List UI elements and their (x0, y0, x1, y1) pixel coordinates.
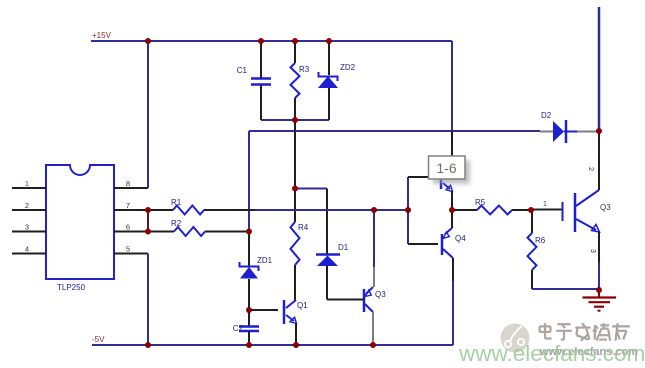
svg-text:TLP250: TLP250 (57, 283, 86, 292)
svg-text:C1: C1 (237, 66, 248, 75)
svg-text:4: 4 (25, 245, 29, 254)
svg-text:Q3: Q3 (600, 203, 611, 212)
svg-text:D2: D2 (541, 111, 552, 120)
svg-text:C2: C2 (233, 324, 244, 333)
svg-text:R4: R4 (298, 223, 309, 232)
svg-text:3: 3 (589, 249, 596, 253)
svg-text:D1: D1 (338, 243, 349, 252)
svg-text:Q3: Q3 (375, 290, 386, 299)
svg-text:R5: R5 (475, 198, 486, 207)
svg-text:1: 1 (543, 201, 547, 208)
svg-text:ZD1: ZD1 (257, 256, 273, 265)
svg-text:3: 3 (25, 223, 29, 232)
svg-text:R6: R6 (535, 236, 546, 245)
svg-text:+15V: +15V (92, 31, 112, 40)
svg-text:ZD2: ZD2 (340, 63, 356, 72)
svg-text:8: 8 (126, 179, 130, 188)
svg-text:6: 6 (126, 223, 130, 232)
svg-text:-5V: -5V (92, 335, 105, 344)
svg-text:R3: R3 (299, 65, 310, 74)
svg-text:2: 2 (587, 167, 594, 171)
svg-text:5: 5 (126, 245, 130, 254)
svg-text:Q1: Q1 (297, 301, 308, 310)
svg-text:7: 7 (126, 201, 130, 210)
svg-text:1-6: 1-6 (436, 160, 456, 176)
svg-text:R2: R2 (171, 219, 182, 228)
svg-text:R1: R1 (171, 198, 182, 207)
svg-text:1: 1 (25, 179, 29, 188)
svg-text:2: 2 (25, 201, 29, 210)
svg-text:Q4: Q4 (455, 234, 466, 243)
svg-text:www.elecfans.com: www.elecfans.com (458, 341, 645, 366)
